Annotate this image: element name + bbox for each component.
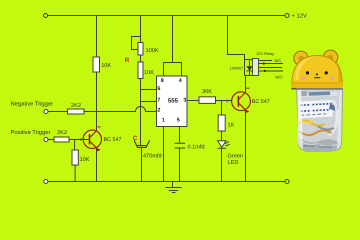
- svg-text:100K: 100K: [146, 48, 159, 54]
- svg-text:Positive Trigger: Positive Trigger: [11, 129, 51, 136]
- svg-text:2K2: 2K2: [71, 103, 81, 109]
- svg-text:10K: 10K: [101, 63, 111, 69]
- svg-text:8: 8: [161, 78, 164, 84]
- svg-text:1K: 1K: [228, 122, 235, 128]
- svg-text:Negative Trigger: Negative Trigger: [11, 101, 54, 108]
- svg-text:R: R: [125, 57, 130, 64]
- svg-text:4: 4: [179, 78, 182, 84]
- svg-text:30K: 30K: [202, 89, 212, 95]
- svg-text:7: 7: [157, 97, 160, 103]
- svg-text:+ 12V: + 12V: [292, 12, 307, 19]
- svg-text:N/C: N/C: [275, 58, 282, 63]
- svg-text:Green: Green: [228, 153, 244, 159]
- svg-text:12V Relay: 12V Relay: [256, 51, 274, 56]
- svg-text:BC 547: BC 547: [252, 99, 270, 105]
- svg-text:1N4007: 1N4007: [230, 67, 243, 71]
- svg-text:6: 6: [157, 86, 160, 92]
- svg-text:3: 3: [183, 97, 186, 103]
- svg-text:555: 555: [168, 97, 179, 104]
- svg-text:1: 1: [162, 118, 165, 124]
- svg-text:10K: 10K: [144, 70, 154, 76]
- svg-text:BC 547: BC 547: [104, 137, 122, 143]
- svg-text:470mfd: 470mfd: [143, 153, 162, 160]
- svg-text:2: 2: [157, 108, 160, 114]
- svg-text:C: C: [133, 135, 138, 142]
- svg-text:N/O: N/O: [276, 74, 283, 79]
- svg-text:LED: LED: [228, 160, 239, 166]
- svg-text:5: 5: [177, 118, 180, 124]
- svg-text:10K: 10K: [80, 157, 90, 163]
- svg-text:2K2: 2K2: [57, 130, 67, 136]
- svg-text:0.1mfd: 0.1mfd: [188, 143, 205, 150]
